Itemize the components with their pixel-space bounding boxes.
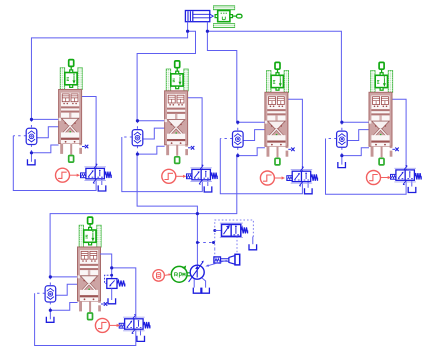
wire: case drain to tank right (202, 278, 206, 288)
pilot wire: check valve left port (122, 136, 132, 138)
wire: check valve bottom to dot (30, 145, 32, 153)
pilot-operated check valve (flow compensator) (233, 131, 244, 147)
tank under valve (305, 188, 313, 194)
junction (30, 118, 33, 121)
wire: stem to tank under check valve (49, 310, 51, 319)
wire: port1 right branch to assembly2 column (137, 31, 195, 121)
friction bar left (267, 71, 271, 93)
junction (236, 154, 239, 157)
friction bar right (97, 225, 101, 247)
link (233, 15, 237, 17)
wire: relief to tank (111, 288, 113, 300)
wire: check valve bottom to dot (136, 146, 138, 154)
friction bar left (79, 225, 83, 247)
junction (110, 266, 113, 269)
wire: block right port to valve top (392, 99, 406, 170)
end-stop (green rectangle) (69, 60, 74, 67)
wire: jog from bottom dot into block lower port (31, 145, 58, 153)
friction bar right (184, 69, 188, 91)
wire: A-line loop down to valve bottom (122, 137, 203, 192)
junction pilot 2 (212, 241, 215, 244)
hydraulic cylinder with counterbalance valve block (369, 92, 392, 146)
pilot wire: check valve left port (220, 138, 232, 140)
pilot wire: dot to check valve top (30, 119, 32, 128)
3-position rails (84, 166, 106, 168)
wire: valve tank stem (207, 180, 209, 186)
friction bar left (60, 68, 64, 90)
directional valve body (125, 319, 144, 329)
tank under check valve (338, 162, 346, 168)
pilot-operated check valve (flow compensator) (337, 131, 348, 147)
return spring (105, 172, 112, 178)
pilot tick (94, 164, 97, 168)
end-stop pill (right) (236, 14, 242, 18)
end-stop (green rectangle) (88, 217, 93, 224)
relief spring (117, 281, 125, 287)
friction bar right (78, 68, 82, 90)
pilot tick bottom (403, 181, 406, 185)
pilot wire: check valve left port (326, 138, 337, 140)
signal arrow to prime mover (164, 273, 171, 275)
swash-plate actuator spring box (214, 257, 221, 263)
junction (340, 121, 343, 124)
wire: block right port to valve top (188, 98, 203, 170)
constant signal source (153, 270, 165, 282)
actuator horn (229, 256, 235, 265)
end-stop bottom (green rectangle) (69, 156, 74, 163)
solenoid (187, 174, 192, 179)
wire: block5 right port to relief column (100, 254, 112, 268)
tank under relief (108, 298, 116, 304)
link stem (70, 66, 72, 72)
solenoid (287, 176, 292, 181)
wire: pilot into LS valve (215, 230, 222, 232)
junction (136, 119, 139, 122)
wire: jog from bottom dot into block lower port (50, 303, 77, 311)
actuator end plate (235, 254, 240, 265)
3-position rails (394, 167, 416, 169)
wire: bypass to valve5 top (112, 268, 136, 319)
link stem (89, 224, 91, 230)
wire: assembly3 column to supply bus (197, 156, 236, 214)
wire: block right port to valve top (288, 99, 303, 171)
wire: supply bus left to assembly5 (50, 214, 197, 277)
wire: check valve right port jog into block mid port (56, 284, 78, 295)
pilot dashes on relief (105, 275, 112, 283)
hydraulic jack (top cylinder) (185, 11, 213, 22)
end-stop bottom (green rectangle) (379, 158, 384, 165)
mass with friction (horizontal) (214, 6, 235, 28)
pilot wire: check valve left port (13, 135, 26, 137)
junction pilot (196, 241, 199, 244)
pilot tick bottom (299, 182, 302, 186)
tank under valve (137, 336, 145, 342)
link stem (176, 68, 178, 74)
wire: column dot to block left port (137, 120, 164, 122)
junction (49, 275, 52, 278)
zero-force source mark (82, 145, 88, 149)
junction port1 (186, 30, 189, 33)
solenoid (391, 174, 396, 179)
friction bar right (284, 71, 288, 93)
wire: cylinder port2 down (206, 22, 208, 32)
friction bar right (388, 71, 392, 93)
pilot wire: dot to check valve top (136, 121, 138, 130)
junction (340, 154, 343, 157)
3-position rails (291, 169, 313, 171)
wire: port2 right bus to assembly4 column (207, 31, 341, 122)
shaft (187, 273, 191, 276)
pilot tick (200, 165, 203, 169)
wire: cylinder port1 down (187, 22, 189, 32)
pilot wire: check valve left port (35, 292, 46, 294)
pilot line: pump riser to LS valve (197, 242, 213, 244)
link stem (381, 69, 383, 75)
junction (136, 153, 139, 156)
mass block with displacement sensor (171, 71, 183, 89)
wire: column dot to block left port (342, 121, 369, 123)
junction (30, 151, 33, 154)
link stem (277, 69, 279, 75)
wire: A-line loop down to valve bottom (326, 139, 407, 195)
hydraulic cylinder with counterbalance valve block (59, 90, 82, 144)
cylinder legs (371, 146, 393, 157)
tank LS (249, 244, 257, 250)
wire: assembly2 column to pump riser (137, 154, 197, 214)
wire: pump riser (196, 214, 198, 266)
wire: port2 branch to assembly3 column (207, 31, 236, 122)
pilot tick bottom (132, 330, 135, 334)
3-position rails (123, 316, 145, 318)
3-position rails (190, 167, 212, 169)
signal arrow (70, 174, 81, 177)
wire: A-line loop down to valve bottom (35, 293, 136, 345)
return spring (211, 173, 218, 179)
zero-force source mark (288, 148, 294, 152)
zero-force source mark (392, 148, 398, 152)
wire: check valve right port jog into block mid port (37, 127, 59, 138)
LS valve spring (241, 227, 248, 233)
wire: pump to tank left (193, 279, 195, 288)
wire: jog from bottom dot into block lower port (238, 148, 265, 156)
LS unloading valve (220, 223, 243, 238)
mass block with displacement sensor (65, 70, 77, 88)
step signal source (260, 171, 274, 185)
signal arrow (109, 324, 120, 327)
pilot tick (301, 167, 304, 171)
signal arrow (274, 176, 285, 179)
relief valve (107, 279, 117, 289)
zero-force source mark (101, 302, 107, 306)
wire: check valve bottom to dot (341, 147, 343, 155)
step signal source (162, 169, 176, 183)
wire: check valve bottom to dot (237, 147, 239, 155)
junction on enclosure (213, 229, 216, 232)
pilot-operated check valve (flow compensator) (45, 286, 56, 302)
pilot tick bottom (93, 179, 96, 183)
tank under valve (204, 186, 212, 192)
wire: port1 left bus to assembly1 column (31, 31, 187, 119)
junction supply bus (196, 212, 199, 215)
LS control dashed enclosure (215, 220, 254, 249)
pilot dash: valve to swash actuator (236, 236, 238, 255)
tank under check valve (27, 159, 35, 165)
end-stop bottom (green rectangle) (175, 157, 180, 164)
wire: check valve right port jog into block mid port (243, 130, 265, 141)
pilot tick bottom (199, 180, 202, 184)
directional valve body (86, 168, 105, 178)
wire: check valve bottom to dot (49, 302, 51, 310)
return spring (415, 173, 422, 179)
pump tank left (193, 288, 201, 294)
tank under valve (408, 187, 416, 193)
step signal source (56, 168, 70, 182)
pump tank right (202, 288, 210, 294)
hydraulic cylinder with counterbalance valve block (265, 92, 288, 146)
tank under valve (98, 185, 106, 191)
wire: jog from bottom dot into block lower port (342, 148, 369, 156)
wire: column dot to block left port (50, 276, 77, 278)
variable displacement pump (189, 261, 205, 282)
directional valve body (292, 171, 311, 181)
pilot tick (133, 314, 136, 318)
tank under check valve (46, 317, 54, 323)
cylinder legs (60, 144, 82, 155)
wire: jog from bottom dot into block lower port (137, 146, 164, 154)
displacement link arrow (205, 260, 227, 266)
cylinder legs (267, 146, 289, 157)
mass block with displacement sensor (375, 73, 387, 91)
junction (236, 121, 239, 124)
wire: A-line loop down to valve bottom (13, 136, 96, 191)
mass block with displacement sensor (84, 227, 96, 245)
wire: valve tank stem (411, 180, 413, 186)
end-stop (green rectangle) (175, 61, 180, 68)
wire: A-line loop down to valve bottom (220, 139, 302, 194)
pilot-operated check valve (flow compensator) (26, 128, 37, 144)
wire: check valve right port jog into block mid port (143, 128, 165, 139)
end-stop bottom (green rectangle) (275, 158, 280, 165)
cylinder legs (79, 301, 101, 312)
end-stop bottom (green rectangle) (88, 313, 93, 320)
wire: column dot to block left port (31, 118, 58, 120)
wire: column dot to block left port (238, 121, 265, 123)
zero-force source mark (188, 146, 194, 150)
cylinder legs (166, 145, 188, 156)
friction bar left (166, 69, 170, 91)
pilot wire: dot to check valve top (237, 122, 239, 131)
wire: valve tank stem (101, 179, 103, 185)
pilot wire: dot to check valve top (341, 122, 343, 131)
wire: valve tank stem (140, 329, 142, 335)
mass block with displacement sensor (271, 73, 283, 91)
return spring (311, 174, 318, 180)
friction bar left (371, 71, 375, 93)
pilot-operated check valve (flow compensator) (132, 130, 143, 146)
pilot tick (404, 166, 407, 170)
wire: stem to tank under check valve (341, 156, 343, 165)
signal arrow (381, 176, 392, 179)
solenoid (81, 173, 86, 178)
wire: valve tank stem (307, 182, 309, 188)
prime mover (RPM) (171, 266, 187, 282)
directional valve body (396, 170, 415, 180)
return spring (143, 322, 150, 328)
solenoid (119, 323, 124, 328)
wire: block right port to valve top (82, 97, 97, 169)
pilot dash: box left down (214, 249, 216, 257)
junction (49, 309, 52, 312)
end-stop (green rectangle) (275, 62, 280, 69)
junction port2 (206, 30, 209, 33)
step signal source (367, 171, 381, 185)
end-stop (green rectangle) (379, 62, 384, 69)
wire: stem to tank under check valve (30, 153, 32, 162)
directional valve body (192, 169, 211, 179)
wire: relief inlet (111, 268, 113, 279)
step signal source (95, 318, 109, 332)
junction (110, 274, 113, 277)
actuator rod (221, 259, 229, 261)
signal arrow (176, 175, 187, 178)
wire: LS valve to tank (252, 237, 254, 245)
hydraulic cylinder with counterbalance valve block (165, 91, 188, 145)
hydraulic cylinder with counterbalance valve block (78, 247, 101, 301)
wire: check valve right port jog into block mid port (347, 130, 369, 141)
pilot wire: dot to check valve top (49, 277, 51, 286)
